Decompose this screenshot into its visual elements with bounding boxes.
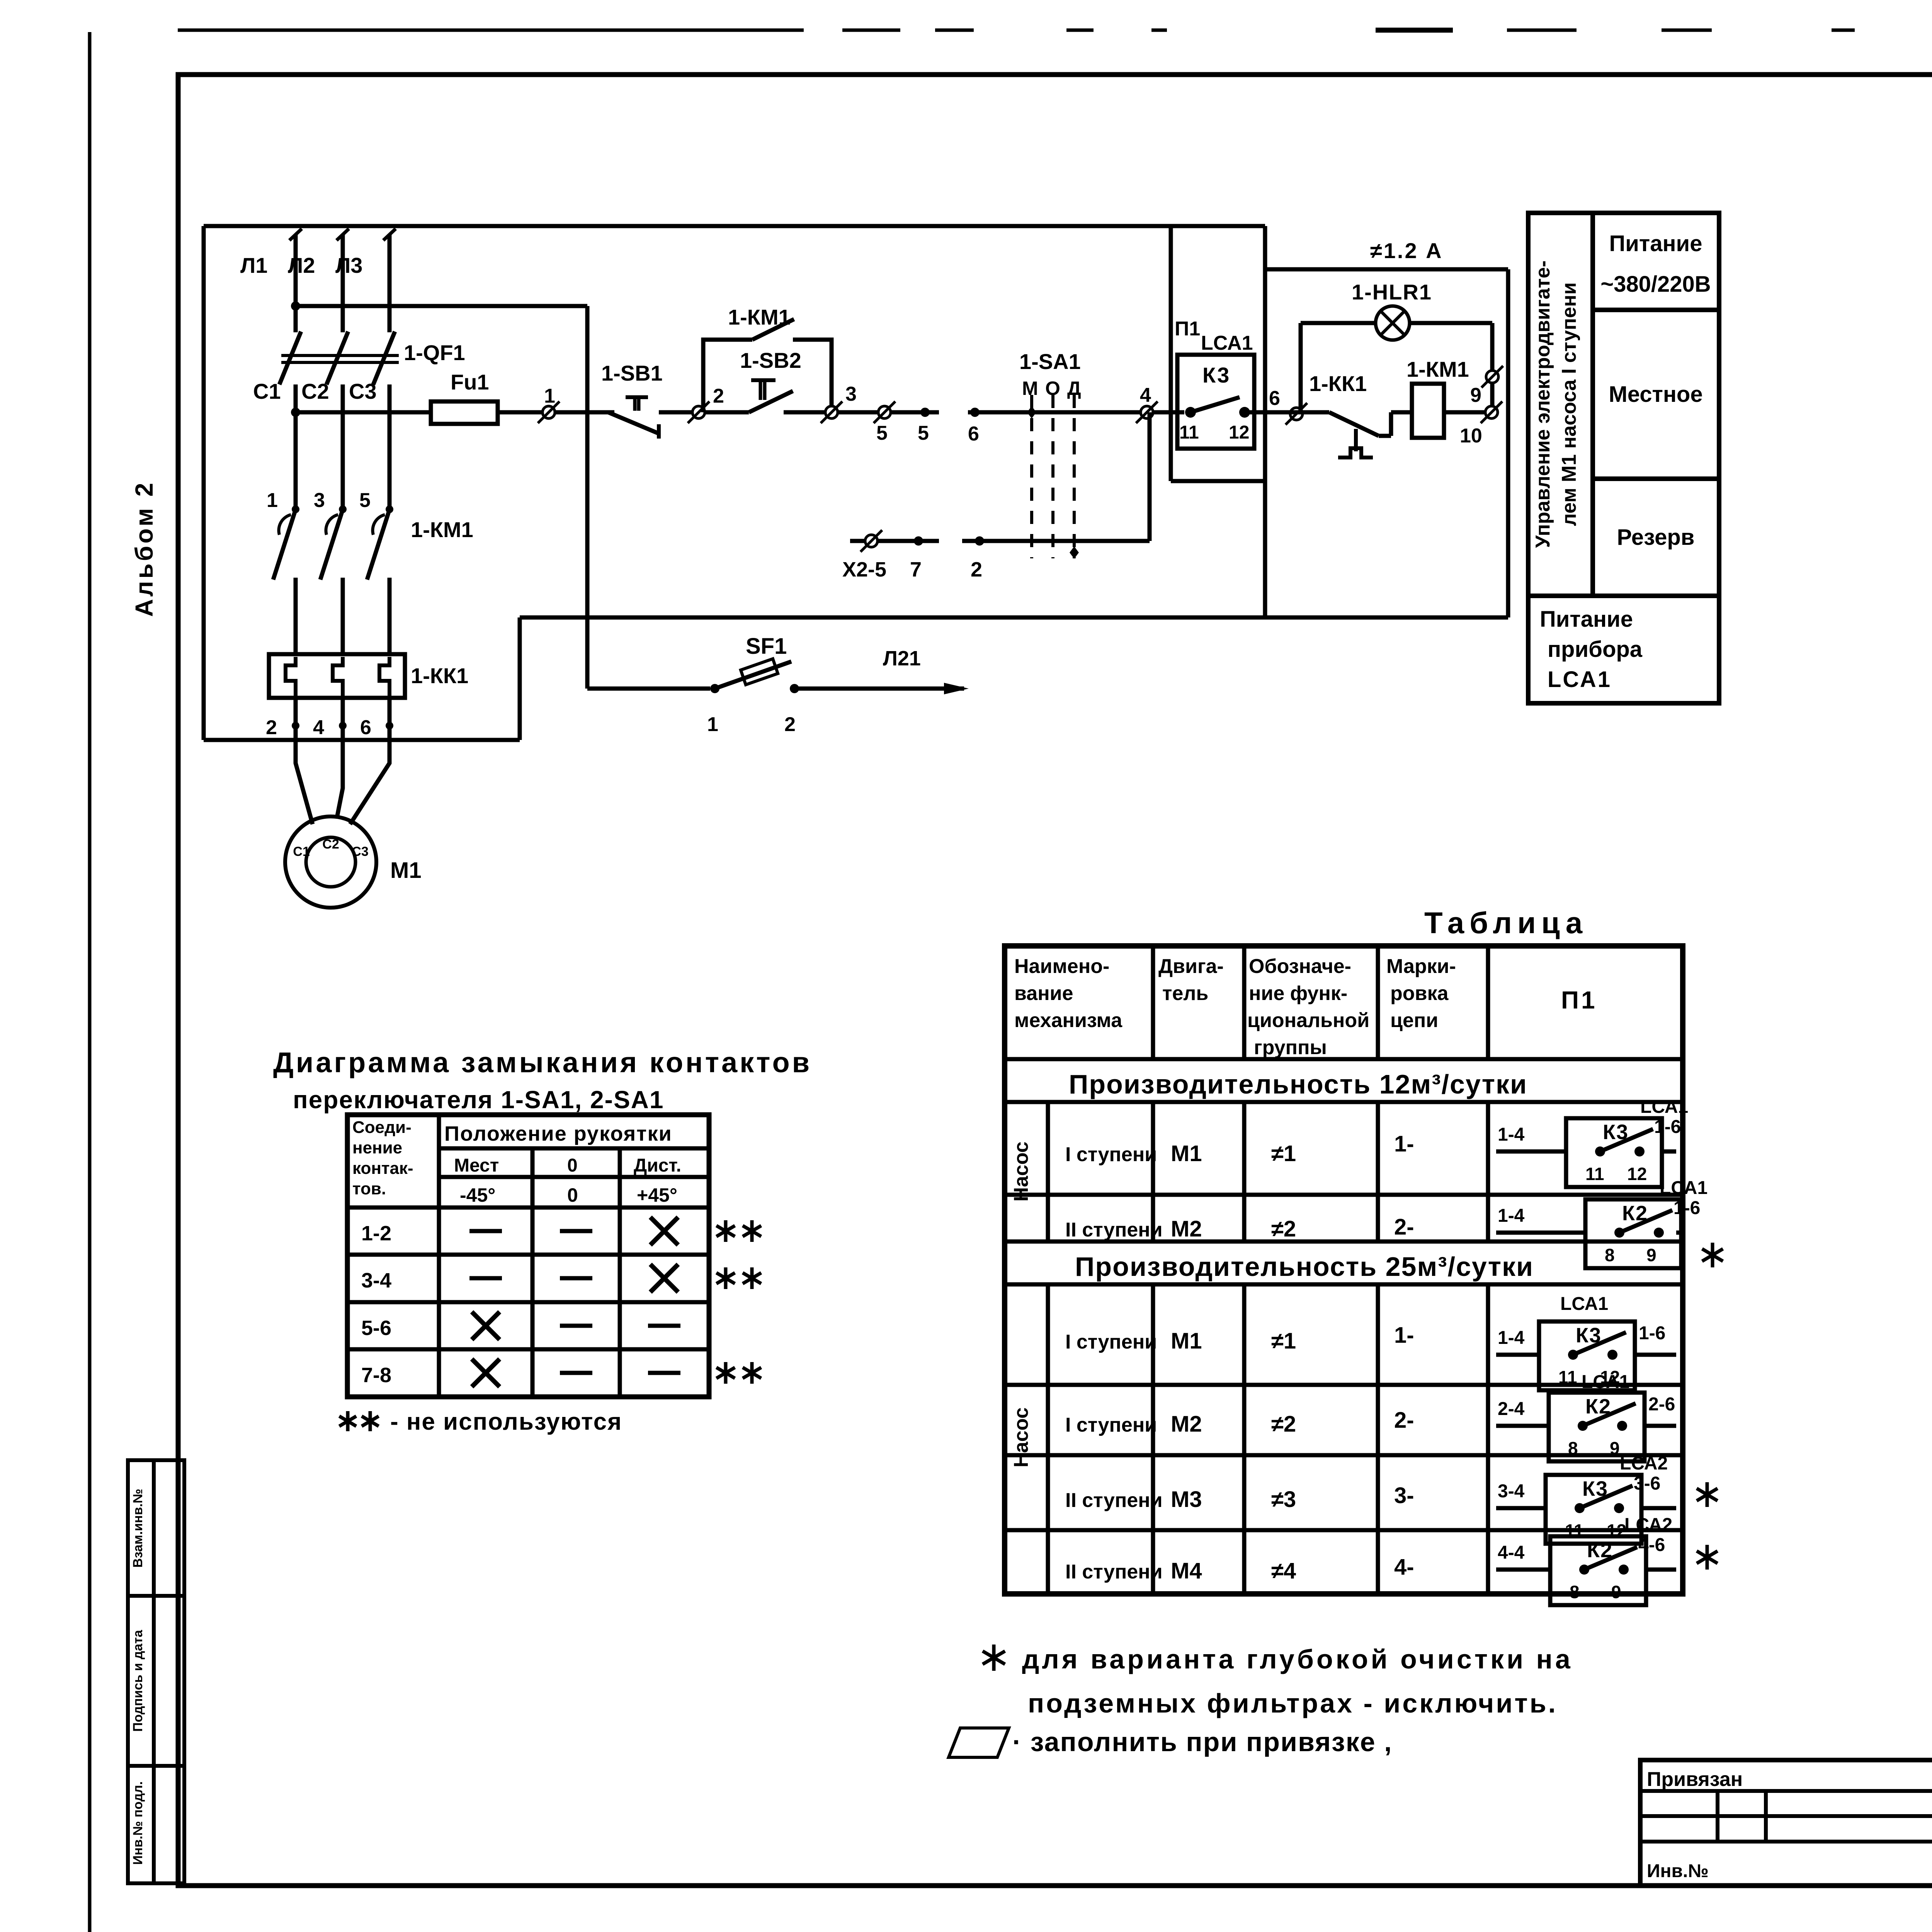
svg-text:6: 6 xyxy=(360,716,371,739)
svg-text:4-4: 4-4 xyxy=(1498,1543,1525,1563)
svg-text:Резерв: Резерв xyxy=(1617,525,1695,550)
sheet left edge line xyxy=(88,32,92,1932)
svg-text:1-КМ1: 1-КМ1 xyxy=(728,305,791,329)
wires: phase columns QF1 to KM1 contacts xyxy=(294,384,298,509)
svg-text:1-6: 1-6 xyxy=(1673,1198,1700,1218)
svg-text:Дист.: Дист. xyxy=(634,1155,681,1176)
svg-text:4: 4 xyxy=(313,716,324,739)
wire: fuse to terminal 1 xyxy=(498,410,543,415)
svg-text:3-4: 3-4 xyxy=(361,1269,391,1292)
junction dot 1 (SF1) xyxy=(710,684,719,693)
svg-text:LСА2: LСА2 xyxy=(1624,1515,1672,1535)
cabinet box ≠1.2 А (lamp and coil circuit) xyxy=(1265,267,1508,272)
svg-text:Д: Д xyxy=(1067,378,1081,399)
contact diagram table xyxy=(347,1115,709,1397)
svg-text:П1: П1 xyxy=(1561,986,1597,1014)
junction diamond on SA1 М line xyxy=(1027,406,1036,418)
svg-text:Инв.№: Инв.№ xyxy=(1647,1861,1709,1881)
fuse Fu1 xyxy=(431,401,498,424)
svg-text:~380/220В: ~380/220В xyxy=(1600,272,1711,297)
terminal circle 1 xyxy=(543,406,555,418)
node L3 phase lead-in xyxy=(388,235,392,332)
aux contact 1-KM1 bypass branch xyxy=(703,340,752,412)
junction dot 5 xyxy=(920,408,930,417)
svg-text:0: 0 xyxy=(567,1184,578,1206)
svg-text:С3: С3 xyxy=(352,844,368,859)
terminal circle 5 xyxy=(878,406,891,418)
svg-text:9: 9 xyxy=(1611,1582,1621,1602)
svg-text:М1: М1 xyxy=(390,858,422,883)
signal lamp 1-HLR1 xyxy=(1376,306,1410,340)
contact K3 (LCA1) with pins 11 12 xyxy=(1185,407,1196,418)
svg-text:механизма: механизма xyxy=(1014,1009,1122,1032)
svg-text:11: 11 xyxy=(1179,422,1199,443)
asterisk marks ** xyxy=(724,1220,728,1242)
terminal circle 4 xyxy=(1141,406,1153,418)
wire: Л21 outgoing with arrow xyxy=(794,687,964,691)
svg-text:8: 8 xyxy=(1570,1582,1580,1602)
svg-text:М2: М2 xyxy=(1171,1412,1202,1437)
svg-text:I ступени: I ступени xyxy=(1065,1143,1157,1166)
svg-text:К3: К3 xyxy=(1202,363,1231,387)
svg-text:Таблица: Таблица xyxy=(1424,906,1588,940)
svg-text:5: 5 xyxy=(876,422,888,444)
svg-text:Двига-: Двига- xyxy=(1158,955,1224,978)
pushbutton 1-SB1 (NC stop) xyxy=(626,395,648,399)
svg-text:циональной: циональной xyxy=(1247,1009,1369,1032)
svg-text:С1: С1 xyxy=(293,844,310,859)
svg-text:Производительность 12м³/сутки: Производительность 12м³/сутки xyxy=(1069,1069,1527,1099)
contactor 1-KM1 main contacts (3-pole) xyxy=(292,505,299,513)
svg-text:М: М xyxy=(1022,378,1038,399)
contact diagram К3 3-4 xyxy=(1496,1506,1546,1510)
svg-text:I ступени: I ступени xyxy=(1065,1331,1157,1353)
svg-text:≠1: ≠1 xyxy=(1271,1328,1296,1354)
wire: node 6 to terminal 4 xyxy=(1025,410,1141,415)
device box П1 LCA1 (outer) xyxy=(1263,226,1267,481)
terminal dots 2 4 6 xyxy=(292,722,299,730)
wire: coil to terminal 10 xyxy=(1444,410,1485,415)
svg-text:Х2-5: Х2-5 xyxy=(842,558,886,581)
svg-text:SF1: SF1 xyxy=(746,634,787,659)
svg-text:5: 5 xyxy=(359,489,371,512)
svg-text:LСА1: LСА1 xyxy=(1560,1294,1608,1314)
thermal contact 1-KK1 (NC in control) xyxy=(1329,412,1379,436)
svg-text:М1: М1 xyxy=(1171,1328,1202,1354)
wire: main control line from C1 xyxy=(296,410,431,415)
svg-text:П1: П1 xyxy=(1175,318,1200,340)
svg-text:2-4: 2-4 xyxy=(1498,1399,1525,1419)
svg-text:вание: вание xyxy=(1014,982,1073,1005)
svg-text:1-4: 1-4 xyxy=(1498,1124,1525,1145)
svg-text:2: 2 xyxy=(713,385,724,407)
cell: Питание прибора LCA1 xyxy=(1528,596,1719,703)
svg-text:6: 6 xyxy=(968,423,979,445)
svg-text:1-4: 1-4 xyxy=(1498,1328,1525,1348)
cabinet boundary box (power section) xyxy=(204,224,1265,228)
svg-text:С2: С2 xyxy=(301,379,329,403)
svg-text:тов.: тов. xyxy=(352,1179,386,1198)
breaker SF1 xyxy=(715,662,791,689)
wire: control return / lamp box bottom rail xyxy=(520,616,1508,620)
svg-text:Л21: Л21 xyxy=(883,647,921,670)
svg-text:С2: С2 xyxy=(322,837,339,852)
svg-text:II ступени: II ступени xyxy=(1065,1489,1163,1512)
svg-text:LСА2: LСА2 xyxy=(1620,1453,1668,1474)
svg-text:1-КК1: 1-КК1 xyxy=(411,663,468,688)
svg-text:нение: нение xyxy=(352,1138,402,1157)
wire: lamp branch top xyxy=(1301,321,1376,325)
svg-text:4-: 4- xyxy=(1394,1554,1414,1580)
contact diagram К2 4-4 xyxy=(1496,1568,1550,1572)
lamp branch left riser xyxy=(1299,323,1303,412)
svg-text:Диаграмма замыкания контактов: Диаграмма замыкания контактов xyxy=(273,1046,812,1078)
motor leads into M1 xyxy=(296,726,313,824)
svg-text:1-: 1- xyxy=(1394,1131,1414,1156)
svg-text:Производительность 25м³/сутки: Производительность 25м³/сутки xyxy=(1075,1252,1534,1282)
svg-text:1-2: 1-2 xyxy=(361,1222,391,1245)
svg-text:Марки-: Марки- xyxy=(1386,955,1456,978)
svg-text:1-6: 1-6 xyxy=(1639,1323,1665,1344)
left strip: attribute cells xyxy=(128,1460,184,1883)
svg-text:4-6: 4-6 xyxy=(1638,1535,1665,1555)
svg-text:4: 4 xyxy=(1140,384,1151,406)
svg-text:2-6: 2-6 xyxy=(1648,1394,1675,1415)
parallelogram legend symbol xyxy=(949,1728,1009,1757)
svg-text:ровка: ровка xyxy=(1390,982,1449,1005)
svg-text:LСА1: LСА1 xyxy=(1201,332,1253,354)
wire: KK1 contact to coil (with step) xyxy=(1379,434,1391,438)
svg-text:Питание: Питание xyxy=(1540,607,1633,632)
svg-text:≠3: ≠3 xyxy=(1271,1487,1296,1512)
wire: X2-5 terminal row xyxy=(850,539,939,543)
wire: vertical drop to SF1 xyxy=(585,306,590,689)
svg-text:9: 9 xyxy=(1470,384,1481,406)
function table: Управление электродвигателем xyxy=(1528,213,1719,596)
svg-text:1: 1 xyxy=(544,385,555,407)
wire: lamp circuit right side riser xyxy=(1490,383,1495,406)
svg-text:С1: С1 xyxy=(253,379,281,403)
wire: terminal 4 into K3 box xyxy=(1153,410,1184,415)
svg-text:2: 2 xyxy=(971,558,982,581)
svg-text:9: 9 xyxy=(1646,1245,1656,1265)
svg-text:8: 8 xyxy=(1605,1245,1615,1265)
junction dot 2 xyxy=(975,536,984,546)
svg-text:3: 3 xyxy=(845,383,857,405)
svg-text:лем М1 насоса I ступени: лем М1 насоса I ступени xyxy=(1558,282,1580,526)
svg-text:Л2: Л2 xyxy=(288,253,315,277)
svg-text:1: 1 xyxy=(707,713,718,736)
svg-text:О: О xyxy=(1045,378,1060,399)
pushbutton 1-SB2 (NO start) xyxy=(751,378,776,382)
contact diagram К3 1-4 xyxy=(1496,1150,1566,1154)
junction diamond on SA1 Д line bottom xyxy=(1070,546,1079,559)
svg-text:подземных фильтрах - исключить: подземных фильтрах - исключить. xyxy=(1028,1688,1558,1718)
svg-text:Привязан: Привязан xyxy=(1647,1768,1743,1791)
wire: lamp to right riser xyxy=(1410,321,1492,325)
svg-text:переключателя 1-SА1, 2-SА1: переключателя 1-SА1, 2-SА1 xyxy=(293,1086,664,1114)
svg-text:9: 9 xyxy=(1610,1438,1620,1458)
middle table column dividers xyxy=(1151,946,1155,1059)
wire: terminal 4 drop to X2-5 row xyxy=(1148,412,1152,541)
svg-text:М1: М1 xyxy=(1171,1141,1202,1166)
svg-text:1-КМ1: 1-КМ1 xyxy=(1406,357,1469,381)
svg-text:для варианта глубокой очистк: для варианта глубокой очистки на xyxy=(1022,1644,1573,1674)
svg-text:1-SА1: 1-SА1 xyxy=(1019,349,1081,374)
svg-text:М4: М4 xyxy=(1171,1558,1202,1583)
svg-text:12: 12 xyxy=(1627,1164,1647,1184)
svg-text:Насос: Насос xyxy=(1010,1141,1032,1201)
svg-text:цепи: цепи xyxy=(1390,1009,1438,1032)
svg-text:II ступени: II ступени xyxy=(1065,1219,1163,1241)
contact diagram К3 1-4 xyxy=(1496,1353,1539,1357)
wire: terminal 3 to circle 5 xyxy=(838,410,878,415)
svg-text:≠2: ≠2 xyxy=(1271,1412,1296,1437)
svg-text:-45°: -45° xyxy=(460,1184,495,1206)
svg-text:Взам.инв.№: Взам.инв.№ xyxy=(131,1489,145,1568)
svg-text:Соеди-: Соеди- xyxy=(352,1118,412,1137)
node L1 phase lead-in xyxy=(294,235,298,332)
Привязан box xyxy=(1640,1760,1932,1886)
selector switch 1-SA1 dashed lines xyxy=(1030,395,1033,558)
circuit breaker 1-QF1 (3-pole) xyxy=(281,354,399,357)
svg-text:1-SВ2: 1-SВ2 xyxy=(740,348,801,372)
svg-text:10: 10 xyxy=(1460,425,1482,447)
svg-text:6: 6 xyxy=(1269,387,1280,410)
svg-text:1-SВ1: 1-SВ1 xyxy=(601,361,663,385)
svg-text:7-8: 7-8 xyxy=(361,1364,391,1387)
svg-text:1-НLR1: 1-НLR1 xyxy=(1352,280,1432,304)
svg-text:- не используются: - не используются xyxy=(390,1408,622,1435)
contact diagram К2 2-4 xyxy=(1496,1424,1549,1428)
terminal circle 6 xyxy=(1290,408,1303,420)
svg-text:LСА1: LСА1 xyxy=(1660,1178,1708,1198)
svg-text:LСА1: LСА1 xyxy=(1582,1372,1629,1392)
terminal circle 9 xyxy=(1486,371,1498,383)
wire: terminal 2 to SB2 xyxy=(705,410,749,415)
svg-text:2: 2 xyxy=(266,716,277,739)
svg-text:Управление электродвигате-: Управление электродвигате- xyxy=(1532,260,1554,548)
svg-text:2-: 2- xyxy=(1394,1408,1414,1433)
svg-text:I ступени: I ступени xyxy=(1065,1414,1157,1436)
svg-text:Положение рукоятки: Положение рукоятки xyxy=(444,1122,672,1145)
svg-text:1-6: 1-6 xyxy=(1654,1117,1681,1137)
svg-text:Мест: Мест xyxy=(454,1155,499,1176)
wire: Л1 tap to SF1 feeder drop xyxy=(296,304,587,308)
svg-text:Л3: Л3 xyxy=(335,253,362,277)
svg-text:3-6: 3-6 xyxy=(1634,1473,1660,1494)
wire: SF1 feeder xyxy=(587,687,710,691)
wire: terminal 1 to SB1 xyxy=(555,410,614,415)
contactor coil 1-KM1 xyxy=(1412,384,1444,438)
svg-text:1-: 1- xyxy=(1394,1323,1414,1348)
phase line entry ticks xyxy=(289,229,302,240)
svg-text:1: 1 xyxy=(267,489,278,512)
svg-text:11: 11 xyxy=(1585,1164,1604,1184)
svg-text:группы: группы xyxy=(1254,1036,1327,1059)
middle table frame xyxy=(1005,946,1683,1594)
relay contact box K3 xyxy=(1177,355,1254,449)
svg-text:М3: М3 xyxy=(1171,1487,1202,1512)
node L2 phase lead-in xyxy=(341,235,345,332)
svg-text:Местное: Местное xyxy=(1609,382,1702,407)
svg-text:≠1: ≠1 xyxy=(1271,1141,1296,1166)
svg-text:7: 7 xyxy=(910,558,922,581)
terminal circle 2 xyxy=(692,406,705,418)
svg-text:1-КМ1: 1-КМ1 xyxy=(411,517,473,542)
svg-text:· заполнить при привязке ,: · заполнить при привязке , xyxy=(1012,1727,1393,1757)
svg-text:Альбом 2: Альбом 2 xyxy=(130,481,158,617)
footnote * для варианта глубокой очистки xyxy=(992,1645,996,1671)
svg-text:Наимено-: Наимено- xyxy=(1014,955,1109,978)
wire: SB2 to terminal 3 xyxy=(784,410,825,415)
svg-text:Инв.№ подл.: Инв.№ подл. xyxy=(131,1781,145,1865)
svg-text:5: 5 xyxy=(918,422,929,444)
wire segment to node 5 xyxy=(891,410,939,415)
svg-text:LСА1: LСА1 xyxy=(1548,667,1612,692)
wire: SB1 to terminal 2 xyxy=(659,410,692,415)
wire: K3 box exit to KK1 contact xyxy=(1245,410,1329,415)
насос sub-divider xyxy=(1046,1102,1050,1242)
svg-text:≠4: ≠4 xyxy=(1271,1558,1296,1583)
contact diagram К2 1-4 xyxy=(1496,1231,1585,1235)
svg-text:1-КК1: 1-КК1 xyxy=(1309,371,1367,396)
svg-text:Обозначе-: Обозначе- xyxy=(1249,955,1351,978)
footnote ** не используются xyxy=(346,1411,350,1431)
svg-text:≠2: ≠2 xyxy=(1271,1216,1296,1242)
junction dot 2 (SF1) xyxy=(790,684,799,693)
svg-text:ние функ-: ние функ- xyxy=(1249,982,1347,1005)
svg-text:1-QF1: 1-QF1 xyxy=(404,340,465,365)
sheet top edge dashed line xyxy=(178,29,804,32)
svg-text:2-: 2- xyxy=(1394,1214,1414,1240)
svg-text:Насос: Насос xyxy=(1010,1407,1032,1467)
svg-text:Подпись и дата: Подпись и дата xyxy=(131,1629,145,1732)
svg-text:0: 0 xyxy=(567,1155,578,1176)
svg-text:С3: С3 xyxy=(349,379,377,403)
svg-text:М2: М2 xyxy=(1171,1216,1202,1242)
junction dot 7 xyxy=(914,536,923,546)
motor M1 symbol xyxy=(285,816,376,908)
svg-text:II ступени: II ступени xyxy=(1065,1561,1163,1583)
terminal circle 10 xyxy=(1485,406,1498,418)
svg-text:11: 11 xyxy=(1558,1367,1577,1387)
svg-text:прибора: прибора xyxy=(1548,637,1643,662)
svg-text:3-4: 3-4 xyxy=(1498,1481,1525,1502)
svg-text:+45°: +45° xyxy=(637,1184,677,1206)
svg-text:Л1: Л1 xyxy=(240,253,267,277)
junction dot C1 / control wire tap xyxy=(291,408,300,417)
svg-text:Fu1: Fu1 xyxy=(451,370,489,394)
svg-text:2: 2 xyxy=(784,713,796,736)
wires: KK1 to motor terminals xyxy=(294,698,298,726)
thermal relay 1-KK1 heaters box xyxy=(269,654,405,698)
svg-text:3-: 3- xyxy=(1394,1483,1414,1508)
svg-text:3: 3 xyxy=(314,489,325,512)
svg-text:1-4: 1-4 xyxy=(1498,1206,1525,1226)
svg-text:12: 12 xyxy=(1229,422,1249,443)
svg-text:LСА1: LСА1 xyxy=(1640,1097,1688,1117)
terminal circle X2-5 xyxy=(865,535,878,547)
svg-text:тель: тель xyxy=(1162,982,1208,1005)
svg-text:Питание: Питание xyxy=(1609,231,1702,256)
svg-text:8: 8 xyxy=(1568,1438,1578,1458)
junction dot on Л1 (control tap) xyxy=(291,301,300,311)
terminal circle 3 xyxy=(825,406,838,418)
svg-text:≠1.2 А: ≠1.2 А xyxy=(1370,238,1443,263)
wire segment after gap, node 6 xyxy=(968,410,1025,415)
svg-text:контак-: контак- xyxy=(352,1159,413,1178)
heater elements of 1-KK1 xyxy=(286,657,296,698)
junction dot 6 xyxy=(970,408,980,417)
svg-text:5-6: 5-6 xyxy=(361,1316,391,1340)
